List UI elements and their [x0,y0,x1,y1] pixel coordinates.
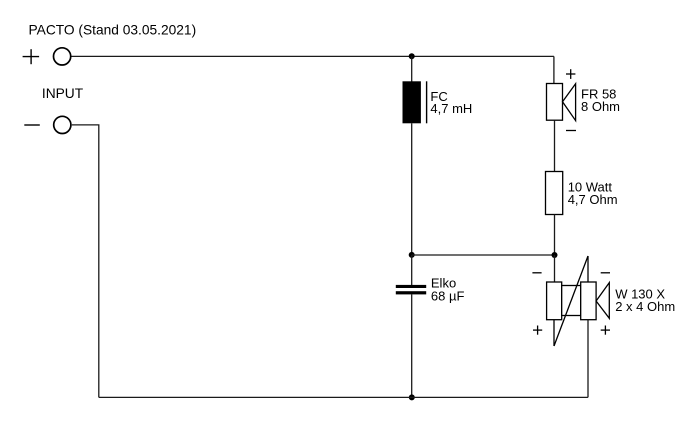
speaker W 130 X diaphragm top edge [587,256,589,282]
speaker W 130 X plus sign left [533,326,542,335]
capacitor Elko bottom plate [396,291,426,294]
speaker W 130 X diaphragm bottom edge [553,320,555,346]
wire junction B down to W 130 X [554,255,556,282]
svg-text:INPUT: INPUT [42,86,84,101]
capacitor Elko top plate [396,285,426,288]
speaker FR 58 plus sign [566,69,575,79]
wire junction C down to capacitor [411,255,413,285]
wire top rail from + terminal to top-right corner [72,55,554,57]
input terminal - circle [54,116,71,133]
speaker W 130 X minus sign left [532,272,541,274]
input terminal - sign [24,124,40,126]
inductor FC body [403,81,421,123]
resistor 10 Watt body [546,172,563,215]
wire resistor to junction B [554,215,556,256]
speaker W 130 X plus sign right [601,326,610,335]
speaker W 130 X left coil box [547,282,562,320]
wire bottom rail [99,396,588,398]
svg-text:PACTO (Stand 03.05.2021): PACTO (Stand 03.05.2021) [29,23,197,38]
node junction A (top of inductor branch) [409,53,415,59]
wire middle rail [412,254,555,256]
svg-text:4,7 mH: 4,7 mH [430,101,472,116]
wire W 130 X to bottom-right corner [587,320,589,398]
speaker FR 58 cone [563,84,576,121]
input terminal + sign [23,49,39,64]
svg-text:2 x 4 Ohm: 2 x 4 Ohm [615,299,675,314]
node junction B (middle rail right) [552,252,558,258]
wire junction A down to inductor [411,56,413,81]
wire FR 58 to resistor [554,120,556,171]
speaker W 130 X diaphragm diagonal [554,256,588,346]
speaker W 130 X minus sign right [601,272,610,274]
node junction C (middle rail left) [409,252,415,258]
svg-text:4,7 Ohm: 4,7 Ohm [568,192,618,207]
speaker W 130 X cone [596,283,609,319]
speaker FR 58 minus sign [566,130,576,132]
svg-text:8 Ohm: 8 Ohm [581,99,620,114]
wire inductor to junction C [411,123,413,255]
input terminal + circle [54,48,71,65]
node junction D (bottom rail) [409,394,415,400]
speaker FR 58 coil box [547,84,563,121]
inductor FC core line [426,81,428,123]
wire - terminal to bottom-left corner [72,125,99,398]
wire capacitor to bottom junction D [411,294,413,397]
speaker W 130 X right coil box [581,282,596,320]
wire top-right corner down to FR 58 [553,56,555,83]
svg-text:68 µF: 68 µF [431,288,465,303]
speaker W 130 X magnet box [562,286,581,316]
